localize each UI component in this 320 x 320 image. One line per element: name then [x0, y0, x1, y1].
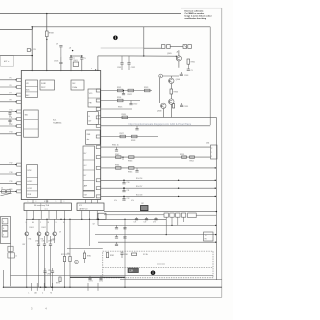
ferrite block FB1 — [141, 206, 149, 211]
junction crt line 1 — [215, 225, 216, 226]
svg-text:R942: R942 — [115, 154, 119, 156]
pin box P43 — [96, 179, 101, 182]
junction C906 — [70, 55, 71, 56]
capacitor CR1 — [123, 180, 125, 182]
svg-text:R9: R9 — [33, 49, 35, 51]
junction P12 — [15, 125, 16, 126]
resistor R945 — [129, 167, 135, 170]
junction P44 at bus — [215, 188, 216, 189]
wire Q907 down — [170, 104, 172, 117]
pin box P6 — [17, 86, 22, 89]
wire right net P40 — [101, 146, 211, 148]
svg-text:C12: C12 — [127, 198, 130, 200]
node B — [75, 260, 79, 264]
junction P42 at bus — [215, 167, 216, 168]
junction IC top pin 1 — [32, 70, 33, 71]
diode D902 — [37, 232, 41, 236]
svg-text:dec: dec — [87, 139, 90, 141]
wire far left vertical — [2, 270, 4, 287]
svg-text:R933: R933 — [174, 91, 178, 93]
svg-text:R1k C56: R1k C56 — [136, 178, 142, 180]
junction P13 — [15, 133, 16, 134]
bus tick 3 — [43, 283, 45, 291]
wire left pin P17 — [0, 164, 17, 166]
wire IC bottom stub 1 — [32, 200, 34, 204]
junction P18 — [15, 173, 16, 174]
svg-text:T2: T2 — [205, 235, 207, 237]
junction crt line 3 — [215, 242, 216, 243]
wire left pin P7 — [0, 94, 17, 96]
junction P10 — [15, 111, 16, 112]
IC internal block vco — [88, 89, 100, 107]
svg-text:R982: R982 — [110, 255, 114, 257]
wire IC bottom stub 3 — [60, 200, 62, 204]
svg-text:R971 R972: R971 R972 — [61, 254, 70, 256]
wire IC bottom stub 2 — [46, 200, 48, 204]
IC internal block video if — [26, 80, 38, 97]
pin box P19 — [17, 182, 22, 185]
resistor R981 — [83, 253, 85, 259]
resistor R933 — [170, 89, 173, 94]
wire right net P43 — [101, 179, 217, 181]
resistor R928 — [132, 135, 138, 138]
svg-text:C963: C963 — [48, 241, 52, 243]
junction crt line 2 — [215, 234, 216, 235]
svg-text:P5: P5 — [10, 78, 12, 80]
svg-text:C9: C9 — [191, 70, 193, 72]
wire bottom long 1 — [120, 278, 222, 280]
svg-text:C972: C972 — [99, 280, 103, 282]
bus horizontal main — [26, 218, 166, 220]
wire Q906 vertical — [170, 76, 172, 78]
svg-text:R921: R921 — [117, 87, 121, 89]
junction K1 — [98, 219, 100, 221]
svg-text:R1k C58: R1k C58 — [136, 194, 142, 196]
wire R981 leads — [84, 250, 86, 253]
svg-text:B-Y: B-Y — [84, 175, 87, 177]
wire CN1-CN2 — [170, 46, 183, 48]
bus tick 4 — [52, 283, 54, 291]
wire delay drop 2 — [171, 217, 173, 225]
pin box 24 — [96, 124, 101, 127]
junction drive at Q905 — [176, 56, 177, 57]
svg-text:R944: R944 — [115, 165, 119, 167]
pin box P12 — [17, 125, 22, 128]
svg-text:xx xx: xx xx — [45, 208, 49, 210]
svg-text:R945: R945 — [128, 172, 132, 174]
pin box P5 — [17, 78, 22, 81]
capacitor C981 — [120, 252, 123, 254]
junction P17 — [15, 164, 16, 165]
pin box P11 — [17, 118, 22, 121]
resistor R972 — [69, 256, 71, 261]
border bottom line — [0, 296, 222, 298]
svg-text:CN5: CN5 — [206, 143, 209, 145]
wire D901 leads — [26, 219, 28, 231]
pin box P7 — [17, 93, 22, 96]
pin box P42 — [96, 166, 101, 169]
svg-text:V: V — [3, 222, 4, 224]
junction clock at IC — [95, 69, 96, 70]
capacitor CD3 — [154, 218, 157, 220]
svg-text:Q9: Q9 — [93, 223, 95, 225]
svg-text:Q905: Q905 — [167, 53, 172, 55]
wire IC3 pin drop 3 — [96, 211, 98, 220]
resistor R902 — [27, 49, 30, 52]
wire clock corner horizontal — [98, 55, 122, 57]
svg-text:P7: P7 — [10, 92, 12, 94]
diode D904 — [53, 232, 57, 236]
wire C907 lead — [81, 56, 83, 58]
svg-text:R922: R922 — [128, 94, 132, 96]
resistor R973 — [59, 277, 61, 282]
wire IC bottom stub 5 — [91, 200, 93, 204]
wire vertical x125 — [124, 219, 126, 287]
wire left pin P5 — [0, 79, 17, 81]
connector CN2 — [183, 45, 187, 49]
power supply enclosure dashed — [103, 251, 213, 278]
wire Q905 emitter — [178, 61, 180, 68]
svg-text:D902: D902 — [42, 227, 46, 229]
svg-text:X901: X901 — [73, 60, 77, 62]
IC internal block rgb matrix — [83, 146, 95, 191]
wire drive net — [122, 55, 176, 57]
svg-text:ANT in: ANT in — [4, 60, 9, 63]
wire audio feed — [67, 248, 103, 250]
pin box 28 — [96, 89, 101, 92]
svg-text:P20: P20 — [10, 189, 13, 191]
tuner box faint — [1, 56, 14, 67]
wire IC bottom stub 4 — [85, 200, 87, 204]
junction C907 — [81, 55, 82, 56]
resistor R944 — [116, 167, 122, 170]
junction row5 — [178, 188, 179, 189]
svg-text:C73: C73 — [153, 222, 156, 224]
wire R902 lead — [31, 49, 33, 51]
capacitor C915 on pin line — [8, 112, 11, 114]
wire right net P42 — [101, 167, 217, 169]
capacitor C955 — [116, 225, 118, 227]
svg-text:IC3: IC3 — [79, 205, 82, 207]
svg-text:R925: R925 — [118, 107, 122, 109]
wire clock corner vertical — [97, 56, 99, 71]
resistor R908 — [46, 31, 49, 37]
transistor Q905 — [176, 56, 181, 61]
wire R908 to IC — [46, 37, 48, 71]
capacitor C965 — [51, 270, 54, 272]
wire right pin 27 — [101, 100, 140, 102]
wire left vertical to bus — [10, 244, 12, 287]
svg-text:G-Y: G-Y — [84, 165, 87, 167]
wire top horizontal net — [0, 13, 181, 15]
wire connector stub — [144, 47, 162, 49]
wire enclosure bottom dark segment — [70, 276, 125, 278]
junction P43 at bus — [215, 180, 216, 181]
pin box P41 — [96, 156, 101, 159]
wire sound pin S — [56, 211, 58, 220]
svg-text:P6: P6 — [10, 85, 12, 87]
wire second horizontal net — [33, 26, 211, 28]
node ball 1 — [113, 36, 118, 41]
wire branch right 2 — [104, 214, 164, 216]
relay box K1 — [98, 213, 106, 219]
wire D902 leads — [38, 219, 40, 231]
svg-text:P19: P19 — [10, 181, 13, 183]
wire right pin 28 — [101, 90, 152, 92]
pin box P44 — [96, 187, 101, 190]
svg-text:R97: R97 — [23, 244, 26, 246]
svg-text:C971: C971 — [89, 280, 93, 282]
wire left pin P19 — [0, 182, 17, 184]
wire branch right 1 — [104, 211, 216, 213]
capacitor CD2 — [145, 218, 148, 220]
pin box 25 — [96, 116, 101, 119]
svg-text:PROT: PROT — [41, 87, 45, 89]
flyback box bottom right — [204, 232, 214, 241]
wire antenna net — [0, 55, 32, 57]
svg-text:R952: R952 — [190, 161, 194, 163]
svg-text:TDA8361: TDA8361 — [53, 122, 62, 125]
capacitor C931 — [121, 56, 123, 63]
svg-text:J2: J2 — [1, 188, 3, 190]
connector CN1 — [161, 45, 165, 49]
wire long mid horizontal — [11, 275, 214, 277]
IC internal block sound demod — [24, 110, 39, 137]
capacitor C957 — [116, 235, 118, 237]
capacitor C906 — [69, 57, 72, 59]
wire right pin 23 — [101, 136, 158, 138]
wire Q908 down to bus — [162, 109, 164, 118]
junction P7 — [15, 94, 16, 95]
label node A — [159, 74, 163, 78]
svg-text:1N4: 1N4 — [53, 239, 56, 241]
wire crt line 2 — [95, 234, 216, 236]
bus tick 1 — [30, 283, 32, 291]
capacitor C910 — [59, 45, 62, 47]
wire R971 leads — [64, 219, 66, 256]
wire R972 leads — [69, 219, 71, 256]
junction P6 — [15, 86, 16, 87]
wire IC3 drop long — [89, 219, 91, 246]
connector P401 cell 3 — [2, 232, 8, 237]
pin box P40 — [96, 146, 101, 149]
wire crt line 3 — [98, 241, 216, 243]
node ball 2 — [151, 271, 156, 276]
wire vertical from second net — [143, 27, 145, 56]
transistor Q907 — [169, 99, 174, 104]
svg-text:P17: P17 — [10, 162, 13, 164]
pin box P45 — [96, 195, 101, 198]
junction IC top pin 2 — [46, 70, 47, 71]
wire second net jog — [32, 27, 34, 30]
wire delay drop 3 — [177, 217, 179, 225]
wire right net P41 — [101, 156, 211, 158]
capacitor C935 — [181, 103, 183, 105]
IC internal block divider — [88, 112, 99, 125]
junction P45 at bus — [215, 196, 216, 197]
svg-text:R926: R926 — [122, 114, 126, 116]
svg-text:B: B — [63, 222, 64, 224]
svg-text:C935: C935 — [184, 106, 188, 108]
IC internal block ident — [86, 130, 101, 145]
svg-text:R981: R981 — [87, 256, 91, 258]
delay line DL1 wide cell — [188, 213, 197, 218]
label 12K block — [128, 268, 138, 273]
pin box P13 — [17, 132, 22, 135]
svg-text:S: S — [56, 222, 57, 224]
svg-text:1N4: 1N4 — [29, 239, 32, 241]
diode D901 — [25, 232, 29, 236]
pin box 27 — [96, 99, 101, 102]
resistor R927 — [120, 135, 126, 138]
wire right pin 25 — [101, 116, 217, 118]
junction pin28 — [123, 90, 124, 91]
junction antenna net — [32, 55, 33, 56]
pin box 23 — [96, 135, 101, 138]
svg-text:P10: P10 — [10, 109, 13, 111]
wire sound pin A1 — [33, 211, 35, 220]
svg-text:SE sound amp TDA: SE sound amp TDA — [34, 204, 50, 207]
connector P401 cell 2 — [2, 225, 8, 230]
svg-text:12 MHz: 12 MHz — [72, 87, 77, 89]
wire faint pin stub — [101, 47, 144, 49]
capacitor C961 — [37, 243, 40, 245]
IC internal block x-ray protect — [40, 80, 55, 90]
op-amp U1 main IC outline TDA8361 — [21, 71, 100, 200]
wire C906 lead — [70, 56, 72, 58]
IC internal block oscillator — [71, 80, 84, 90]
junction P19 — [15, 183, 16, 184]
capacitor C921 — [123, 91, 125, 94]
diode D903 — [45, 232, 49, 236]
wire IC3 pin drop 2 — [89, 211, 91, 220]
capacitor C958 — [123, 236, 126, 238]
svg-text:C9: C9 — [59, 232, 61, 234]
resistor R983 — [132, 253, 137, 255]
resistor R951 — [182, 156, 187, 158]
capacitor C964 — [43, 270, 46, 272]
svg-text:125: 125 — [48, 270, 51, 272]
svg-text:Cy: Cy — [84, 57, 86, 59]
resistor R952 — [190, 156, 195, 158]
capacitor C944 — [122, 157, 124, 160]
wire right net P45 — [101, 195, 217, 197]
pin box P10 — [17, 110, 22, 113]
svg-text:C931: C931 — [117, 67, 121, 69]
svg-text:xx xx xxxx: xx xx xxxx — [157, 264, 165, 266]
svg-text:C933: C933 — [184, 75, 188, 77]
wire C905 lead — [60, 57, 62, 63]
svg-text:RGB: RGB — [87, 134, 90, 136]
wire crt line 1 — [98, 224, 216, 226]
svg-text:Q908: Q908 — [157, 110, 161, 112]
svg-text:P11: P11 — [10, 117, 13, 119]
svg-text:P8: P8 — [10, 100, 12, 102]
pin box 26 — [96, 108, 101, 111]
junction branch — [216, 211, 217, 212]
svg-text:R-Y: R-Y — [84, 153, 87, 155]
svg-text:C96: C96 — [42, 241, 45, 243]
wire left pin P12 — [0, 125, 17, 127]
svg-text:C71: C71 — [134, 222, 137, 224]
svg-text:1: 1 — [211, 152, 212, 154]
bus tick 2 — [36, 283, 38, 291]
junction drive net — [143, 55, 144, 56]
resistor R923 — [145, 89, 151, 92]
svg-text:R941 1k: R941 1k — [112, 144, 119, 146]
wire right pin 24 — [101, 125, 211, 127]
pin box P20 — [17, 190, 22, 193]
svg-text:D901: D901 — [30, 227, 34, 229]
svg-text:S: S — [3, 235, 4, 237]
svg-text:R924: R924 — [117, 97, 121, 99]
border top-right corner tick — [181, 7, 222, 9]
svg-text:R973: R973 — [56, 283, 60, 285]
transistor Q908 — [161, 103, 166, 108]
svg-text:P13: P13 — [10, 132, 13, 134]
capacitor C925 — [136, 126, 138, 129]
junction delay drop 2 — [171, 225, 172, 226]
svg-text:1N4: 1N4 — [41, 239, 44, 241]
wire left pin P20 — [0, 190, 17, 192]
svg-text:4.7k: 4.7k — [114, 200, 117, 202]
bus tick 6 — [97, 283, 99, 291]
svg-text:2: 2 — [211, 156, 212, 158]
wire D903 leads — [46, 219, 48, 231]
resistor R971 — [63, 256, 65, 261]
junction P8 — [15, 101, 16, 102]
wire second net left segment — [0, 29, 33, 31]
svg-text:R927: R927 — [120, 133, 124, 135]
bus tick 5 — [87, 283, 89, 291]
wire D904 leads — [54, 219, 56, 231]
capacitor C972 — [100, 276, 102, 279]
capacitor CR3 — [123, 196, 125, 198]
connector P401 cell 1 — [2, 219, 8, 224]
junction second net — [32, 26, 33, 27]
svg-text:C905: C905 — [54, 61, 58, 63]
wire sound pin C — [40, 211, 42, 220]
wire right pin 26 — [101, 108, 132, 110]
svg-text:C10: C10 — [127, 182, 130, 184]
capacitor C934 below R931 — [187, 64, 189, 69]
resistor R991 — [8, 253, 14, 258]
junction row6 — [178, 196, 179, 197]
junction P11 — [15, 118, 16, 119]
svg-text:C922: C922 — [133, 104, 137, 106]
vert out box IC3 — [77, 203, 104, 211]
capacitor C956 — [123, 227, 126, 229]
svg-text:R923: R923 — [144, 87, 148, 89]
capacitor C959 — [116, 242, 118, 244]
wire vertical at R908 — [46, 14, 48, 31]
svg-text:C932: C932 — [131, 67, 135, 69]
wire left pin P8 — [0, 101, 17, 103]
wire IC bottom stub 6 — [97, 200, 99, 204]
wire delay out — [196, 214, 216, 216]
svg-text:C11: C11 — [127, 190, 130, 192]
svg-text:OUT: OUT — [84, 194, 87, 196]
resistor R934 — [173, 104, 175, 108]
svg-text:12K: 12K — [129, 270, 134, 273]
junction R908 net — [46, 39, 47, 40]
wire C910 lead — [60, 47, 62, 57]
ground junctions — [3, 287, 4, 288]
connector P401 outer — [1, 217, 11, 244]
resistor R924 — [118, 99, 124, 102]
IC internal block sync processor — [27, 165, 38, 198]
transistor Q906 — [169, 78, 174, 83]
